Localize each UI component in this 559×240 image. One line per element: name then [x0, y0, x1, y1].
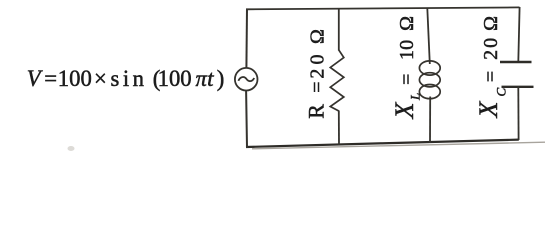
wire left edge above source	[245, 9, 248, 68]
AC source V1 circle	[235, 68, 258, 91]
wire R branch top	[338, 9, 340, 51]
wire bottom ghost line	[252, 142, 545, 149]
inductor XL coil loop 2	[419, 73, 440, 87]
wire R branch bottom	[338, 111, 340, 146]
svg-text:V=100×sin(100πt): V=100×sin(100πt)	[27, 66, 225, 92]
scan smudge artifact	[68, 146, 75, 151]
svg-text:X=10ΩL: X=10ΩL	[390, 16, 423, 120]
svg-text:X=20ΩC: X=20ΩC	[474, 16, 509, 119]
inductor XL coil loop 3	[419, 85, 440, 99]
capacitor XC top plate	[500, 61, 532, 63]
svg-text:R=20Ω: R=20Ω	[304, 29, 329, 119]
resistor R zigzag	[330, 50, 344, 111]
wire left edge below source	[245, 90, 248, 147]
inductor XL coil loop 1	[419, 61, 440, 75]
wire L branch bottom	[429, 97, 431, 144]
wire C branch bottom	[517, 87, 519, 141]
AC source V1 sine tilde	[238, 77, 254, 81]
wire L branch top	[427, 8, 430, 64]
capacitor XC bottom plate	[502, 86, 534, 88]
wire C branch top (right edge)	[518, 7, 519, 62]
wire top rail	[246, 7, 520, 9]
wire bottom rail	[246, 140, 519, 147]
